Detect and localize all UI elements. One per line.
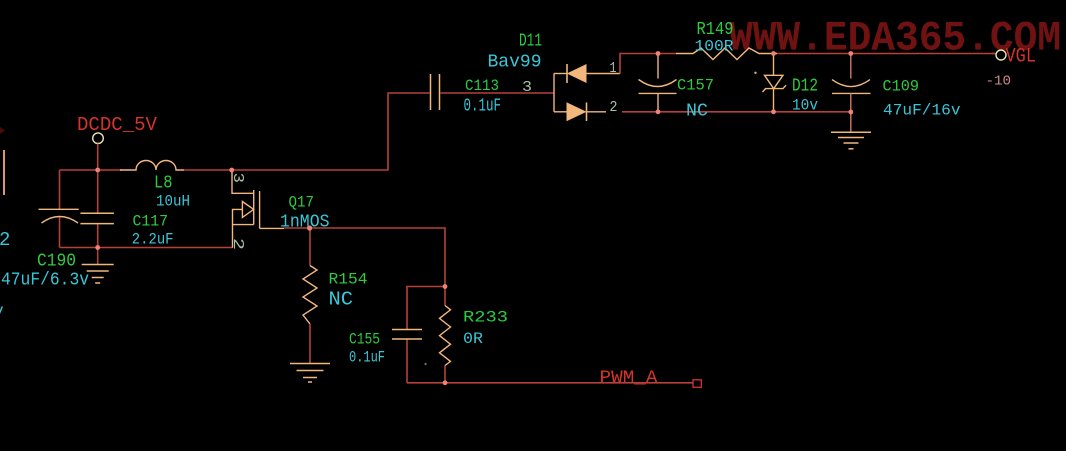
node stray dot near D12 xyxy=(754,72,756,74)
svg-text:L8: L8 xyxy=(154,174,173,194)
diode D11 upper element xyxy=(567,64,586,83)
wire bottom rail to PWM_A xyxy=(407,382,693,384)
terminal PWM_A square xyxy=(693,380,701,388)
svg-text:DCDC_5V: DCDC_5V xyxy=(77,114,158,136)
wire D11 pin1 up to top rail xyxy=(620,54,676,74)
wire left rail down xyxy=(59,170,61,248)
diode D12 zener xyxy=(763,54,787,112)
svg-text:3: 3 xyxy=(522,79,532,96)
svg-text:0.1uF: 0.1uF xyxy=(349,349,385,367)
svg-text:Q17: Q17 xyxy=(289,194,315,212)
wire R154 to ground xyxy=(309,324,311,364)
svg-text:v: v xyxy=(0,302,4,320)
capacitor C109 xyxy=(832,54,871,133)
terminal DCDC_5V circle xyxy=(93,133,104,144)
svg-text:C190: C190 xyxy=(37,252,76,272)
wire inductor to C113 corner xyxy=(184,93,430,170)
wire C113 to D11 xyxy=(441,92,555,94)
svg-text:C113: C113 xyxy=(465,77,499,95)
svg-text:C157: C157 xyxy=(677,77,714,95)
capacitor C157 xyxy=(639,54,677,112)
wire bottom-left rail xyxy=(60,247,233,249)
svg-text:1: 1 xyxy=(610,60,617,77)
wire C117 branch xyxy=(97,170,99,248)
ground for C190 C117 xyxy=(82,248,114,284)
svg-text:-10: -10 xyxy=(986,74,1012,90)
wire VGL stub xyxy=(992,53,996,55)
ground for C109 xyxy=(831,132,871,149)
resistor R233 xyxy=(440,306,451,366)
transistor Q17 xyxy=(232,170,284,248)
svg-text:0.1uF: 0.1uF xyxy=(464,97,502,117)
svg-text:10v: 10v xyxy=(792,97,818,115)
node stray dot near C155 xyxy=(424,363,426,365)
svg-text:47uF/16v: 47uF/16v xyxy=(883,102,961,120)
svg-text:10uH: 10uH xyxy=(156,193,190,211)
capacitor C190 xyxy=(39,209,79,223)
node left edge dark mark xyxy=(0,127,5,134)
svg-text:NC: NC xyxy=(329,289,354,311)
svg-text:Bav99: Bav99 xyxy=(488,53,542,73)
wire top-left rail from left rail to inductor xyxy=(60,169,123,171)
svg-text:2: 2 xyxy=(0,229,10,251)
svg-text:PWM_A: PWM_A xyxy=(600,369,658,389)
svg-text:0R: 0R xyxy=(463,330,483,348)
wire top rail R149 to VGL xyxy=(777,53,996,55)
svg-text:D12: D12 xyxy=(792,77,818,97)
svg-text:2: 2 xyxy=(229,238,246,250)
wire bottom rail D11 pin2 to C109 xyxy=(622,111,851,113)
svg-text:2.2uF: 2.2uF xyxy=(132,231,174,249)
svg-text:3: 3 xyxy=(229,173,246,183)
terminal VGL circle xyxy=(996,50,1006,60)
svg-text:VGL: VGL xyxy=(1006,46,1037,69)
svg-text:2: 2 xyxy=(610,99,618,116)
svg-text:NC: NC xyxy=(686,102,708,122)
wire Q17 source to R233 branch xyxy=(284,228,445,287)
wire R154 branch top xyxy=(309,228,311,266)
svg-text:1nMOS: 1nMOS xyxy=(280,213,330,233)
wire left edge clipped component xyxy=(3,150,5,195)
capacitor C117 xyxy=(80,213,114,223)
svg-text:C109: C109 xyxy=(883,78,920,96)
svg-text:C117: C117 xyxy=(133,213,169,231)
inductor L8 xyxy=(120,161,184,171)
node junction dots xyxy=(95,51,853,385)
svg-text:D11: D11 xyxy=(519,32,542,52)
wire C155 R233 loop xyxy=(407,287,445,383)
svg-text:C155: C155 xyxy=(349,331,380,349)
ground for R154 xyxy=(290,364,330,383)
svg-text:R154: R154 xyxy=(329,271,368,289)
diode D11 lower element xyxy=(567,103,587,122)
svg-text:R233: R233 xyxy=(463,309,508,327)
svg-text:47uF/6.3v: 47uF/6.3v xyxy=(1,271,89,291)
resistor R154 xyxy=(303,266,317,325)
wire DCDC_5V stem xyxy=(97,144,99,170)
svg-text:100R: 100R xyxy=(695,38,734,56)
resistor R149 xyxy=(676,48,777,60)
capacitor C155 xyxy=(392,330,422,340)
diode D11 dual common body xyxy=(554,74,620,112)
capacitor C113 xyxy=(431,74,440,110)
